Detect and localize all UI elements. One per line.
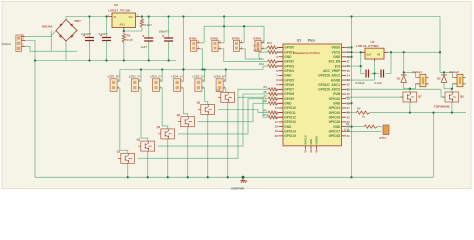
svg-text:25: 25 bbox=[347, 115, 351, 119]
wire diode-relay top ch1 bbox=[404, 72, 416, 77]
wire Q1 gate to R5 bbox=[138, 89, 268, 158]
wire BTN3 to R14 bbox=[243, 49, 268, 59]
svg-text:3V3: 3V3 bbox=[335, 64, 341, 68]
svg-text:Q6: Q6 bbox=[217, 89, 221, 93]
svg-text:GPIO3: GPIO3 bbox=[284, 64, 294, 68]
wire VBUS to +V rail and GND bus vertical bbox=[351, 17, 353, 178]
junction gnd rail left bbox=[34, 59, 36, 61]
transistor Q1 bbox=[118, 153, 135, 163]
pin 10 GPIO7 bbox=[279, 88, 284, 90]
svg-text:GPIO2: GPIO2 bbox=[284, 60, 294, 64]
LED LED5_G bbox=[195, 79, 202, 92]
svg-text:GPIO18: GPIO18 bbox=[329, 120, 341, 124]
pin 23 GND bbox=[342, 126, 347, 128]
svg-text:Q7: Q7 bbox=[418, 95, 422, 99]
connector J1 TuHost bbox=[16, 35, 22, 51]
pin 22 GPIO17 bbox=[342, 130, 347, 132]
LED LED4_Y bbox=[174, 79, 181, 92]
pin 8 GPIO5 bbox=[279, 79, 284, 81]
svg-text:32: 32 bbox=[347, 83, 351, 87]
svg-text:37: 37 bbox=[347, 59, 351, 63]
wire drain stub ch1 bbox=[409, 89, 411, 92]
svg-text:GPIO21: GPIO21 bbox=[329, 106, 341, 110]
wire rail riser to button bus bbox=[223, 17, 225, 27]
wire AGND to cap gnd bbox=[346, 74, 375, 81]
junction LED2 supply bbox=[140, 68, 142, 70]
resistor R10 bbox=[268, 116, 278, 119]
svg-text:VBUS: VBUS bbox=[331, 46, 340, 50]
svg-text:RUN: RUN bbox=[333, 92, 341, 96]
pin 9 GPIO6 bbox=[279, 84, 284, 86]
regulator U2 L78L33_SOT89 bbox=[365, 48, 384, 59]
wire Q4 gate to R8 bbox=[198, 103, 268, 121]
pin 13 GND bbox=[279, 102, 284, 104]
svg-text:GPIO1: GPIO1 bbox=[284, 50, 294, 54]
wire J1.3 to bridge AC1 bbox=[25, 31, 56, 37]
svg-text:R8: R8 bbox=[264, 99, 268, 103]
svg-text:GPIO11: GPIO11 bbox=[284, 111, 296, 115]
wire U2 OUT down to caps bbox=[360, 52, 362, 73]
svg-text:ADJ: ADJ bbox=[120, 23, 126, 27]
wire 3V3 to OUT net bbox=[346, 65, 361, 67]
svg-text:GPIO7: GPIO7 bbox=[284, 88, 294, 92]
svg-text:11: 11 bbox=[275, 92, 278, 96]
svg-text:Raspberry Pi Pico: Raspberry Pi Pico bbox=[294, 51, 321, 55]
svg-text:18: 18 bbox=[275, 125, 279, 129]
pin 12 GPIO9 bbox=[279, 98, 284, 100]
svg-text:GND: GND bbox=[333, 125, 341, 129]
pin 41 SWCLK bbox=[305, 146, 307, 150]
wire J1.2 down to bottom ground rail bbox=[25, 41, 35, 178]
svg-text:Q8: Q8 bbox=[460, 95, 464, 99]
svg-text:GPIO19: GPIO19 bbox=[329, 115, 341, 119]
svg-text:3V3_EN: 3V3_EN bbox=[328, 60, 341, 64]
svg-text:GPIO22: GPIO22 bbox=[329, 97, 341, 101]
capacitor C3 1uF bbox=[148, 17, 150, 39]
wire Q2 source to ground rail bbox=[147, 151, 149, 177]
svg-text:VI: VI bbox=[114, 15, 117, 19]
svg-text:LED6_B?: LED6_B? bbox=[214, 74, 226, 78]
svg-text:VSYS: VSYS bbox=[332, 50, 341, 54]
svg-text:GPIO14: GPIO14 bbox=[284, 129, 296, 133]
svg-text:1k: 1k bbox=[362, 115, 365, 119]
svg-text:R10: R10 bbox=[264, 113, 269, 117]
svg-text:GND: GND bbox=[284, 55, 292, 59]
svg-text:OuT: OuT bbox=[366, 52, 372, 56]
wire bus drop to BTN4 bbox=[263, 26, 265, 43]
svg-text:Q5: Q5 bbox=[197, 101, 201, 105]
wire LED6 to Q6 drain bbox=[223, 88, 228, 93]
svg-text:D2: D2 bbox=[437, 77, 441, 81]
wire gate Q7 from GPIO22 bbox=[346, 96, 404, 98]
regulator U3 LM317_TO-220 bbox=[112, 13, 136, 28]
pin 2 GPIO1 bbox=[279, 51, 284, 53]
wire GND stub bbox=[346, 56, 352, 58]
svg-text:2.2mF?: 2.2mF? bbox=[81, 32, 91, 36]
wire bridge minus down to gnd rail bbox=[65, 41, 67, 61]
svg-text:R.15: R.15 bbox=[127, 38, 133, 42]
svg-text:0.1uF: 0.1uF bbox=[375, 81, 383, 85]
svg-text:U3: U3 bbox=[114, 3, 118, 7]
svg-text:SWDIO: SWDIO bbox=[315, 136, 319, 145]
wire supply to LED3 bbox=[160, 70, 163, 82]
svg-text:R5: R5 bbox=[127, 34, 131, 38]
pin 11 GPIO8 bbox=[279, 93, 284, 95]
svg-text:16: 16 bbox=[275, 115, 279, 119]
svg-text:30: 30 bbox=[347, 92, 351, 96]
transistor Q2 bbox=[138, 141, 155, 151]
resistor R2 1k bbox=[346, 112, 357, 114]
LED LED2_Y bbox=[131, 79, 138, 92]
svg-text:KBU4A: KBU4A bbox=[42, 25, 53, 29]
resistor R11 bbox=[268, 60, 278, 63]
resistor R4 0.2k bbox=[141, 17, 143, 19]
wire source to gnd ch1 bbox=[409, 102, 411, 113]
svg-text:FQP30N06L: FQP30N06L bbox=[434, 105, 450, 109]
wire bottom ground rail bbox=[35, 176, 434, 178]
svg-text:R5: R5 bbox=[264, 85, 268, 89]
resistor R8 bbox=[268, 102, 278, 105]
svg-text:GPIO8: GPIO8 bbox=[284, 92, 294, 96]
diode D2 flyback bbox=[441, 75, 447, 83]
svg-text:ADC_VREF: ADC_VREF bbox=[323, 69, 340, 73]
wire +V riser to LED supply line bbox=[182, 17, 184, 70]
wire +V rail corner down to relay2 bbox=[439, 17, 441, 73]
wire +V rail U3 VO to right corner bbox=[140, 16, 440, 18]
svg-text:BTN2: BTN2 bbox=[211, 36, 219, 40]
wire button bus bbox=[204, 25, 264, 27]
wire VBUS stub bbox=[346, 47, 352, 49]
button BTN3 bbox=[233, 40, 239, 51]
svg-text:Relay2: Relay2 bbox=[450, 70, 460, 74]
op-amp U1 Raspberry Pi Pico body bbox=[283, 44, 342, 146]
svg-text:13: 13 bbox=[275, 101, 279, 105]
wire diode stubs bbox=[443, 72, 445, 88]
svg-text:LED2_Y?: LED2_Y? bbox=[129, 74, 141, 78]
wire LED4 to Q4 drain bbox=[181, 88, 188, 117]
wire GND pin to R1 bbox=[346, 126, 365, 128]
svg-text:D1: D1 bbox=[397, 77, 401, 81]
wire input cap leg bbox=[390, 52, 392, 73]
svg-text:BTN4: BTN4 bbox=[254, 36, 262, 40]
svg-text:Relay1: Relay1 bbox=[413, 70, 423, 74]
pin 42 GND bbox=[310, 146, 312, 150]
svg-text:Q4: Q4 bbox=[177, 113, 181, 117]
junction LED4 supply bbox=[182, 68, 184, 70]
svg-text:Pico: Pico bbox=[308, 39, 315, 43]
svg-text:GPIO0: GPIO0 bbox=[284, 46, 294, 50]
wire BTN1 down to LED supply line bbox=[200, 49, 203, 70]
wire BTN4 to R13 bbox=[264, 48, 267, 49]
wire gnd rail bbox=[35, 60, 176, 62]
resistor R7 bbox=[268, 97, 278, 100]
wire supply to LED5 bbox=[202, 70, 205, 82]
wire GND pin 28 bbox=[346, 102, 352, 104]
wire LED3 to Q3 drain bbox=[160, 88, 168, 129]
capacitor C1 2.2mF bbox=[89, 17, 91, 38]
wire LED2 to Q2 drain bbox=[138, 88, 147, 141]
svg-text:GPIO4: GPIO4 bbox=[284, 69, 294, 73]
svg-text:15: 15 bbox=[275, 111, 279, 115]
svg-text:TuHost: TuHost bbox=[2, 42, 11, 46]
wire bus drop to BTN1 bbox=[200, 26, 204, 43]
svg-text:Q3: Q3 bbox=[157, 125, 161, 129]
svg-text:BR?: BR? bbox=[75, 19, 81, 23]
pin 25 GPIO19 bbox=[342, 116, 347, 118]
wire LED supply line to R12 bbox=[120, 66, 268, 69]
wire Q5 source to ground rail bbox=[207, 115, 209, 178]
svg-text:GPIO27_ADC1: GPIO27_ADC1 bbox=[318, 83, 340, 87]
wire relay supply feed bbox=[388, 51, 440, 53]
junction LED3 supply bbox=[161, 68, 163, 70]
svg-text:GPIO26_ADC0: GPIO26_ADC0 bbox=[318, 88, 340, 92]
svg-text:27: 27 bbox=[347, 106, 351, 110]
transistor Q4 bbox=[178, 117, 195, 127]
wire supply to LED6 bbox=[223, 70, 226, 82]
ground symbol GNDPWR bbox=[240, 177, 246, 183]
svg-text:+3.3A: +3.3A bbox=[253, 45, 260, 48]
button BTN1 bbox=[191, 40, 197, 51]
svg-text:34: 34 bbox=[347, 73, 351, 77]
svg-text:GND: GND bbox=[309, 139, 313, 145]
pin 19 GPIO14 bbox=[279, 130, 284, 132]
pin 7 GND bbox=[279, 74, 284, 76]
wire RTh bottom to GPIO17 bbox=[346, 130, 382, 133]
wire Q5 gate to R9 bbox=[218, 110, 268, 113]
pin 18 GND bbox=[279, 126, 284, 128]
resistor R13 bbox=[268, 46, 278, 49]
resistor R12 bbox=[268, 65, 278, 68]
svg-text:LED3_G?: LED3_G? bbox=[150, 74, 162, 78]
svg-text:19: 19 bbox=[275, 129, 279, 133]
svg-text:LED5_G?: LED5_G? bbox=[192, 74, 204, 78]
pin 17 GPIO13 bbox=[279, 121, 284, 123]
pin 30 RUN bbox=[342, 93, 347, 95]
pin 5 GPIO3 bbox=[279, 65, 284, 67]
svg-text:R6: R6 bbox=[264, 90, 268, 94]
wire gnd drop right bbox=[433, 113, 435, 178]
svg-text:0.33uF: 0.33uF bbox=[356, 81, 365, 85]
wire Q2 gate to R6 bbox=[158, 94, 268, 146]
svg-text:GND: GND bbox=[333, 55, 341, 59]
svg-text:GPIO28_ADC2: GPIO28_ADC2 bbox=[318, 74, 340, 78]
wire Q4 source to ground rail bbox=[187, 127, 189, 178]
resistor R6 bbox=[268, 92, 278, 95]
thermistor RTh box bbox=[383, 125, 389, 135]
button BTN4 bbox=[255, 40, 261, 51]
svg-text:GPIO20: GPIO20 bbox=[329, 111, 341, 115]
LED LED3_G bbox=[153, 79, 160, 92]
wire relay coil bottom ch2 bbox=[444, 84, 453, 89]
pin 36 3V3 bbox=[342, 65, 347, 67]
wire J1.1 to bridge AC2 bbox=[25, 31, 77, 52]
svg-text:GPIO15: GPIO15 bbox=[284, 134, 296, 138]
svg-text:BTN1: BTN1 bbox=[189, 36, 197, 40]
pin 32 GPIO27_ADC1 bbox=[342, 84, 347, 86]
svg-text:100uF?: 100uF? bbox=[159, 30, 169, 34]
svg-text:14: 14 bbox=[275, 106, 279, 110]
junction LED6 supply bbox=[225, 68, 227, 70]
pin 27 GPIO21 bbox=[342, 107, 347, 109]
MOSFET Q7 FQP30N06L bbox=[400, 92, 417, 102]
wire Q6 gate to R10 bbox=[238, 97, 268, 117]
pin 20 GPIO15 bbox=[279, 135, 284, 137]
wire supply drop ch1 bbox=[403, 52, 405, 72]
svg-text:LM317_TO-220: LM317_TO-220 bbox=[109, 9, 131, 13]
pin 6 GPIO4 bbox=[279, 70, 284, 72]
svg-text:R2: R2 bbox=[357, 106, 361, 110]
pin 28 GND bbox=[342, 102, 347, 104]
svg-text:20: 20 bbox=[275, 134, 279, 138]
bridge rectifier BR1 KBU4A bbox=[56, 20, 77, 42]
capacitor C4 100uF bbox=[168, 17, 170, 39]
wire BTN2 to R11 bbox=[221, 49, 267, 62]
pin 1 GPIO0 bbox=[279, 47, 284, 49]
svg-text:R12: R12 bbox=[259, 62, 264, 66]
pin 43 SWDIO bbox=[316, 146, 318, 150]
svg-text:GPIO17: GPIO17 bbox=[329, 129, 341, 133]
svg-text:GNDPWR: GNDPWR bbox=[231, 186, 245, 190]
wire supply to LED2 bbox=[138, 70, 141, 82]
junction LED5 supply bbox=[203, 68, 205, 70]
wire U2 GND down bbox=[374, 61, 376, 74]
svg-text:GND: GND bbox=[284, 74, 292, 78]
LED LED1_R bbox=[110, 79, 117, 92]
pin 24 GPIO18 bbox=[342, 121, 347, 123]
wire supply to LED4 bbox=[181, 70, 184, 82]
resistor R14 bbox=[268, 51, 278, 54]
pin 39 VSYS bbox=[342, 51, 347, 53]
resistor R1 0.1k bbox=[364, 125, 377, 128]
MOSFET Q8 FQP30N06L bbox=[442, 92, 459, 102]
pin 31 GPIO26_ADC0 bbox=[342, 88, 347, 90]
transistor Q6 bbox=[218, 92, 235, 102]
svg-text:LED1_R?: LED1_R? bbox=[108, 74, 120, 78]
svg-text:GPIO16: GPIO16 bbox=[329, 134, 341, 138]
pin 33 AGND bbox=[342, 79, 347, 81]
wire VSYS to U2 OUT bbox=[346, 51, 362, 53]
svg-text:GPIO13: GPIO13 bbox=[284, 120, 296, 124]
wire bus drop to BTN3 bbox=[243, 26, 244, 43]
wire Q6 source to ground rail bbox=[227, 102, 229, 177]
svg-text:GND: GND bbox=[284, 102, 292, 106]
svg-text:GND: GND bbox=[333, 102, 341, 106]
pin 14 GPIO10 bbox=[279, 107, 284, 109]
svg-text:Q2: Q2 bbox=[137, 137, 141, 141]
svg-text:12: 12 bbox=[275, 97, 279, 101]
resistor R9 bbox=[268, 111, 278, 114]
wire rail bridge to U3 VI bbox=[66, 16, 108, 18]
svg-text:SWCLK: SWCLK bbox=[304, 135, 308, 145]
svg-text:17: 17 bbox=[275, 120, 279, 124]
pin 16 GPIO12 bbox=[279, 116, 284, 118]
wire diode stubs bbox=[403, 72, 405, 88]
svg-text:GND: GND bbox=[284, 125, 292, 129]
transistor Q3 bbox=[158, 129, 175, 139]
svg-text:GPIO10: GPIO10 bbox=[284, 106, 296, 110]
wire Q1 source to ground rail bbox=[127, 163, 129, 177]
svg-text:R11: R11 bbox=[259, 57, 264, 61]
wire bus drop to BTN2 bbox=[221, 26, 224, 43]
wire relay coil bottom ch1 bbox=[404, 84, 416, 89]
wire diode-relay top ch2 bbox=[440, 72, 453, 77]
pin 21 GPIO16 bbox=[342, 135, 347, 137]
svg-text:AGND: AGND bbox=[331, 78, 341, 82]
svg-text:+3.3A: +3.3A bbox=[253, 49, 260, 52]
wire Q3 gate to R7 bbox=[178, 99, 268, 134]
wire LED1 to Q1 drain bbox=[117, 88, 128, 154]
resistor R5 bbox=[123, 30, 125, 34]
svg-text:L78L33_GTYBR: L78L33_GTYBR bbox=[356, 44, 379, 48]
pin 26 GPIO20 bbox=[342, 112, 347, 114]
svg-text:4.7uF?: 4.7uF? bbox=[99, 32, 109, 36]
svg-text:GPIO6: GPIO6 bbox=[284, 83, 294, 87]
svg-text:1uF?: 1uF? bbox=[141, 45, 148, 49]
pin 4 GPIO2 bbox=[279, 60, 284, 62]
svg-text:R7: R7 bbox=[264, 94, 268, 98]
svg-text:GPIO9: GPIO9 bbox=[284, 97, 294, 101]
LED LED6_B bbox=[216, 79, 223, 92]
capacitor C5 0.33uF bbox=[361, 73, 365, 75]
pin 40 VBUS bbox=[342, 47, 347, 49]
pin 38 GND bbox=[342, 56, 347, 58]
svg-text:IN: IN bbox=[378, 52, 381, 56]
wire drain stub ch2 bbox=[451, 89, 453, 92]
capacitor C2 4.7uF bbox=[106, 17, 108, 38]
svg-text:BTN3: BTN3 bbox=[232, 36, 240, 40]
wire supply to LED1 bbox=[117, 70, 120, 82]
pin 34 GPIO28_ADC2 bbox=[342, 74, 347, 76]
svg-text:Q1: Q1 bbox=[117, 150, 121, 154]
svg-text:GPIO5: GPIO5 bbox=[284, 78, 294, 82]
svg-text:GPIO12: GPIO12 bbox=[284, 115, 296, 119]
relay Relay1 bbox=[420, 74, 429, 86]
svg-text:R13: R13 bbox=[267, 41, 272, 45]
wire bridge plus stub bbox=[65, 17, 67, 20]
transistor Q5 bbox=[198, 105, 215, 115]
svg-text:10: 10 bbox=[275, 87, 279, 91]
wire Q3 source to ground rail bbox=[167, 139, 169, 177]
svg-text:RTh?: RTh? bbox=[380, 136, 387, 140]
resistor R5 bbox=[268, 88, 278, 91]
svg-text:R1: R1 bbox=[346, 122, 350, 126]
button BTN2 bbox=[212, 40, 218, 51]
relay Relay2 bbox=[457, 74, 466, 86]
svg-text:21: 21 bbox=[347, 134, 351, 138]
pin 3 GND bbox=[279, 56, 284, 58]
diode D1 flyback bbox=[401, 75, 407, 83]
pin 29 GPIO22 bbox=[342, 98, 347, 100]
pin 35 ADC_VREF bbox=[342, 70, 347, 72]
svg-text:35: 35 bbox=[347, 69, 351, 73]
svg-text:LED4_Y?: LED4_Y? bbox=[171, 74, 183, 78]
capacitor C6 0.1uF bbox=[381, 70, 384, 78]
pin 15 GPIO11 bbox=[279, 112, 284, 114]
svg-text:U1: U1 bbox=[297, 39, 301, 43]
wire LED5 to Q5 drain bbox=[202, 88, 208, 105]
pin 37 3V3_EN bbox=[342, 60, 347, 62]
svg-text:R9: R9 bbox=[264, 108, 268, 112]
wire gate Q8 from GPIO26 bbox=[346, 89, 446, 97]
wire source to gnd ch2 bbox=[451, 102, 453, 113]
wire mosfet source gnd bus bbox=[373, 112, 466, 114]
